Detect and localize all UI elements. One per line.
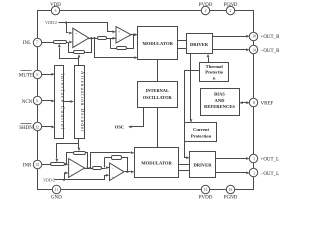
svg-text:5: 5: [36, 73, 38, 77]
svg-text:Protection: Protection: [191, 133, 212, 138]
svg-text:1: 1: [253, 157, 255, 161]
wire modulator to driver R pair: [178, 41, 187, 49]
wire VDD/2 bottom bias line: [55, 172, 110, 181]
svg-text:Current: Current: [193, 127, 209, 132]
wire U1 output row: [89, 37, 117, 40]
wire U3 output row: [85, 166, 110, 169]
wire thermal to driver R arrow: [207, 54, 210, 63]
node VDD/2 label top: [45, 20, 57, 25]
block Interface Control: [55, 66, 64, 139]
wire driver to -OUT_L pin: [216, 172, 250, 175]
svg-text:+: +: [75, 32, 77, 36]
svg-text:VDD/2: VDD/2: [43, 177, 55, 182]
svg-text:-: -: [119, 38, 121, 42]
block Current Protection: [185, 123, 217, 142]
resistor R2 U1 feedback: [74, 51, 85, 54]
wire NCN to interface: [42, 100, 56, 103]
resistor R8 U4 feedback: [112, 156, 122, 160]
resistor R5 INR input: [51, 163, 65, 166]
wire driver to +OUT_R pin: [213, 35, 250, 38]
resistor R7 interstage left-bottom: [93, 167, 102, 170]
pin 4 PVDD top: [199, 3, 213, 15]
wire driver to +OUT_L pin: [216, 157, 250, 160]
pin 11 GND: [51, 185, 62, 200]
svg-text:Attenuation Decoder: Attenuation Decoder: [79, 71, 84, 133]
wire U4 output to modulator: [125, 170, 135, 173]
wire bias to VREF double arrow: [239, 101, 250, 104]
svg-text:INTERNAL: INTERNAL: [146, 88, 169, 93]
pin 13 INR: [23, 160, 42, 168]
wire VDD/2 top bias line: [59, 21, 117, 34]
pin 8 VREF: [249, 98, 273, 106]
svg-text:-: -: [112, 167, 114, 171]
svg-text:DRIVER: DRIVER: [190, 42, 209, 47]
svg-text:6: 6: [55, 9, 57, 13]
wire oscillator to modulator R: [157, 60, 159, 82]
svg-text:4: 4: [205, 9, 207, 13]
wire attenuation control to top resistors: [58, 44, 81, 66]
svg-text:PVDD: PVDD: [199, 3, 213, 8]
wire INR input row: [42, 163, 69, 166]
block DRIVER right channel: [187, 34, 213, 54]
svg-text:OSC: OSC: [115, 125, 124, 130]
svg-text:16: 16: [229, 188, 233, 192]
svg-text:AND: AND: [215, 98, 226, 103]
svg-text:INL: INL: [23, 41, 31, 46]
node OSC label: [115, 125, 124, 130]
svg-text:PGND: PGND: [224, 196, 238, 201]
svg-text:7: 7: [36, 41, 38, 45]
svg-text:-: -: [76, 41, 78, 45]
pin 2 PGND top: [224, 3, 238, 15]
pin 6 VDD: [50, 3, 61, 15]
svg-text:12: 12: [35, 126, 39, 130]
svg-text:+: +: [118, 30, 120, 34]
svg-text:−OUT_L: −OUT_L: [261, 172, 280, 177]
svg-text:VREF: VREF: [261, 102, 274, 107]
resistor R1 INL input: [54, 41, 67, 44]
svg-text:VDD/2: VDD/2: [45, 20, 57, 25]
svg-text:−OUT_R: −OUT_R: [261, 49, 281, 54]
wire modulator tap upper: [93, 37, 137, 59]
svg-text:REFERENCES: REFERENCES: [204, 104, 235, 109]
svg-text:GND: GND: [51, 196, 62, 201]
svg-text:+: +: [112, 175, 114, 179]
block MODULATOR right channel: [138, 27, 178, 60]
block Attenuation Decoder: [75, 66, 85, 139]
wire U4 feedback loop: [105, 158, 129, 173]
svg-text:3: 3: [253, 171, 255, 175]
resistor R6 U3 feedback: [74, 152, 86, 155]
block INTERNAL OSCILLATOR: [138, 82, 178, 108]
svg-text:+: +: [71, 173, 73, 177]
svg-text:VDD: VDD: [50, 3, 61, 8]
op-amp U2 left channel second stage: [116, 27, 131, 43]
op-amp U4 right channel second stage: [110, 163, 125, 181]
svg-text:+OUT_L: +OUT_L: [261, 158, 280, 163]
resistor R3 interstage left-top: [98, 37, 107, 40]
wire U2 feedback loop: [111, 34, 135, 49]
pin 5 MUTE: [19, 70, 42, 78]
pin 1 +OUT_L: [249, 154, 279, 162]
svg-text:11: 11: [55, 188, 59, 192]
pin 7 INL: [23, 38, 42, 46]
wire U3 feedback loop: [67, 153, 89, 170]
wire SHDN to interface: [42, 126, 56, 129]
svg-text:PGND: PGND: [224, 3, 238, 8]
svg-text:NCN: NCN: [22, 100, 33, 105]
block BIAS AND REFERENCES: [201, 89, 240, 116]
svg-text:2: 2: [230, 9, 232, 13]
svg-text:MODULATOR: MODULATOR: [142, 41, 173, 46]
wire driver R to current protection arrow: [190, 54, 193, 123]
resistor R4 U2 feedback: [117, 47, 127, 50]
op-amp U1 left channel first stage: [73, 28, 89, 47]
pin 3 -OUT_L: [249, 168, 279, 177]
svg-text:SHDN: SHDN: [19, 126, 33, 131]
pin 16 PGND bottom: [224, 185, 238, 200]
pin 9 NCN: [22, 96, 42, 105]
svg-text:MODULATOR: MODULATOR: [141, 160, 172, 165]
node VDD/2 label bottom: [43, 177, 55, 182]
pin 14 -OUT_R: [249, 45, 280, 54]
wire INL input row: [42, 41, 73, 44]
svg-text:+OUT_R: +OUT_R: [261, 35, 281, 40]
svg-text:Protectio: Protectio: [205, 70, 223, 75]
svg-text:INR: INR: [23, 163, 32, 168]
svg-text:14: 14: [252, 48, 256, 52]
svg-text:OSCILLATOR: OSCILLATOR: [143, 95, 173, 100]
svg-text:BIAS: BIAS: [214, 92, 225, 97]
pin 12 SHDN: [19, 122, 42, 131]
wire U1 feedback loop: [69, 37, 93, 53]
block MODULATOR left channel: [135, 148, 179, 178]
svg-text:n: n: [213, 75, 216, 80]
wire driver to -OUT_R pin: [213, 48, 250, 51]
pin 15 PVDD bottom: [199, 185, 213, 200]
wire attenuation control to bottom resistors: [56, 139, 81, 163]
IC outer boundary box: [38, 11, 254, 190]
svg-text:MUTE: MUTE: [19, 73, 33, 78]
wire thermal bus to driver L: [185, 71, 200, 160]
svg-text:Interface Control: Interface Control: [59, 73, 64, 131]
svg-text:15: 15: [204, 188, 208, 192]
op-amp U3 right channel first stage: [69, 159, 85, 178]
block Thermal Protection: [200, 63, 229, 82]
wire interface to attenuation decoder: [64, 100, 75, 103]
wire modulator to driver L pair: [179, 165, 190, 171]
wire modulator tap lower: [89, 151, 134, 169]
block DRIVER left channel: [190, 152, 216, 178]
pin 10 +OUT_R: [249, 32, 280, 40]
svg-text:PVDD: PVDD: [199, 196, 213, 201]
svg-text:-: -: [71, 163, 73, 167]
svg-text:10: 10: [252, 35, 256, 39]
wire oscillator OSC tap: [128, 108, 144, 129]
svg-text:9: 9: [36, 100, 38, 104]
wire U2 output to modulator: [131, 33, 138, 36]
svg-text:13: 13: [35, 163, 39, 167]
svg-text:DRIVER: DRIVER: [193, 162, 212, 167]
svg-text:8: 8: [253, 101, 255, 105]
wire oscillator to modulator L: [157, 108, 159, 148]
svg-text:Thermal: Thermal: [206, 64, 224, 69]
wire MUTE to interface: [42, 73, 56, 76]
